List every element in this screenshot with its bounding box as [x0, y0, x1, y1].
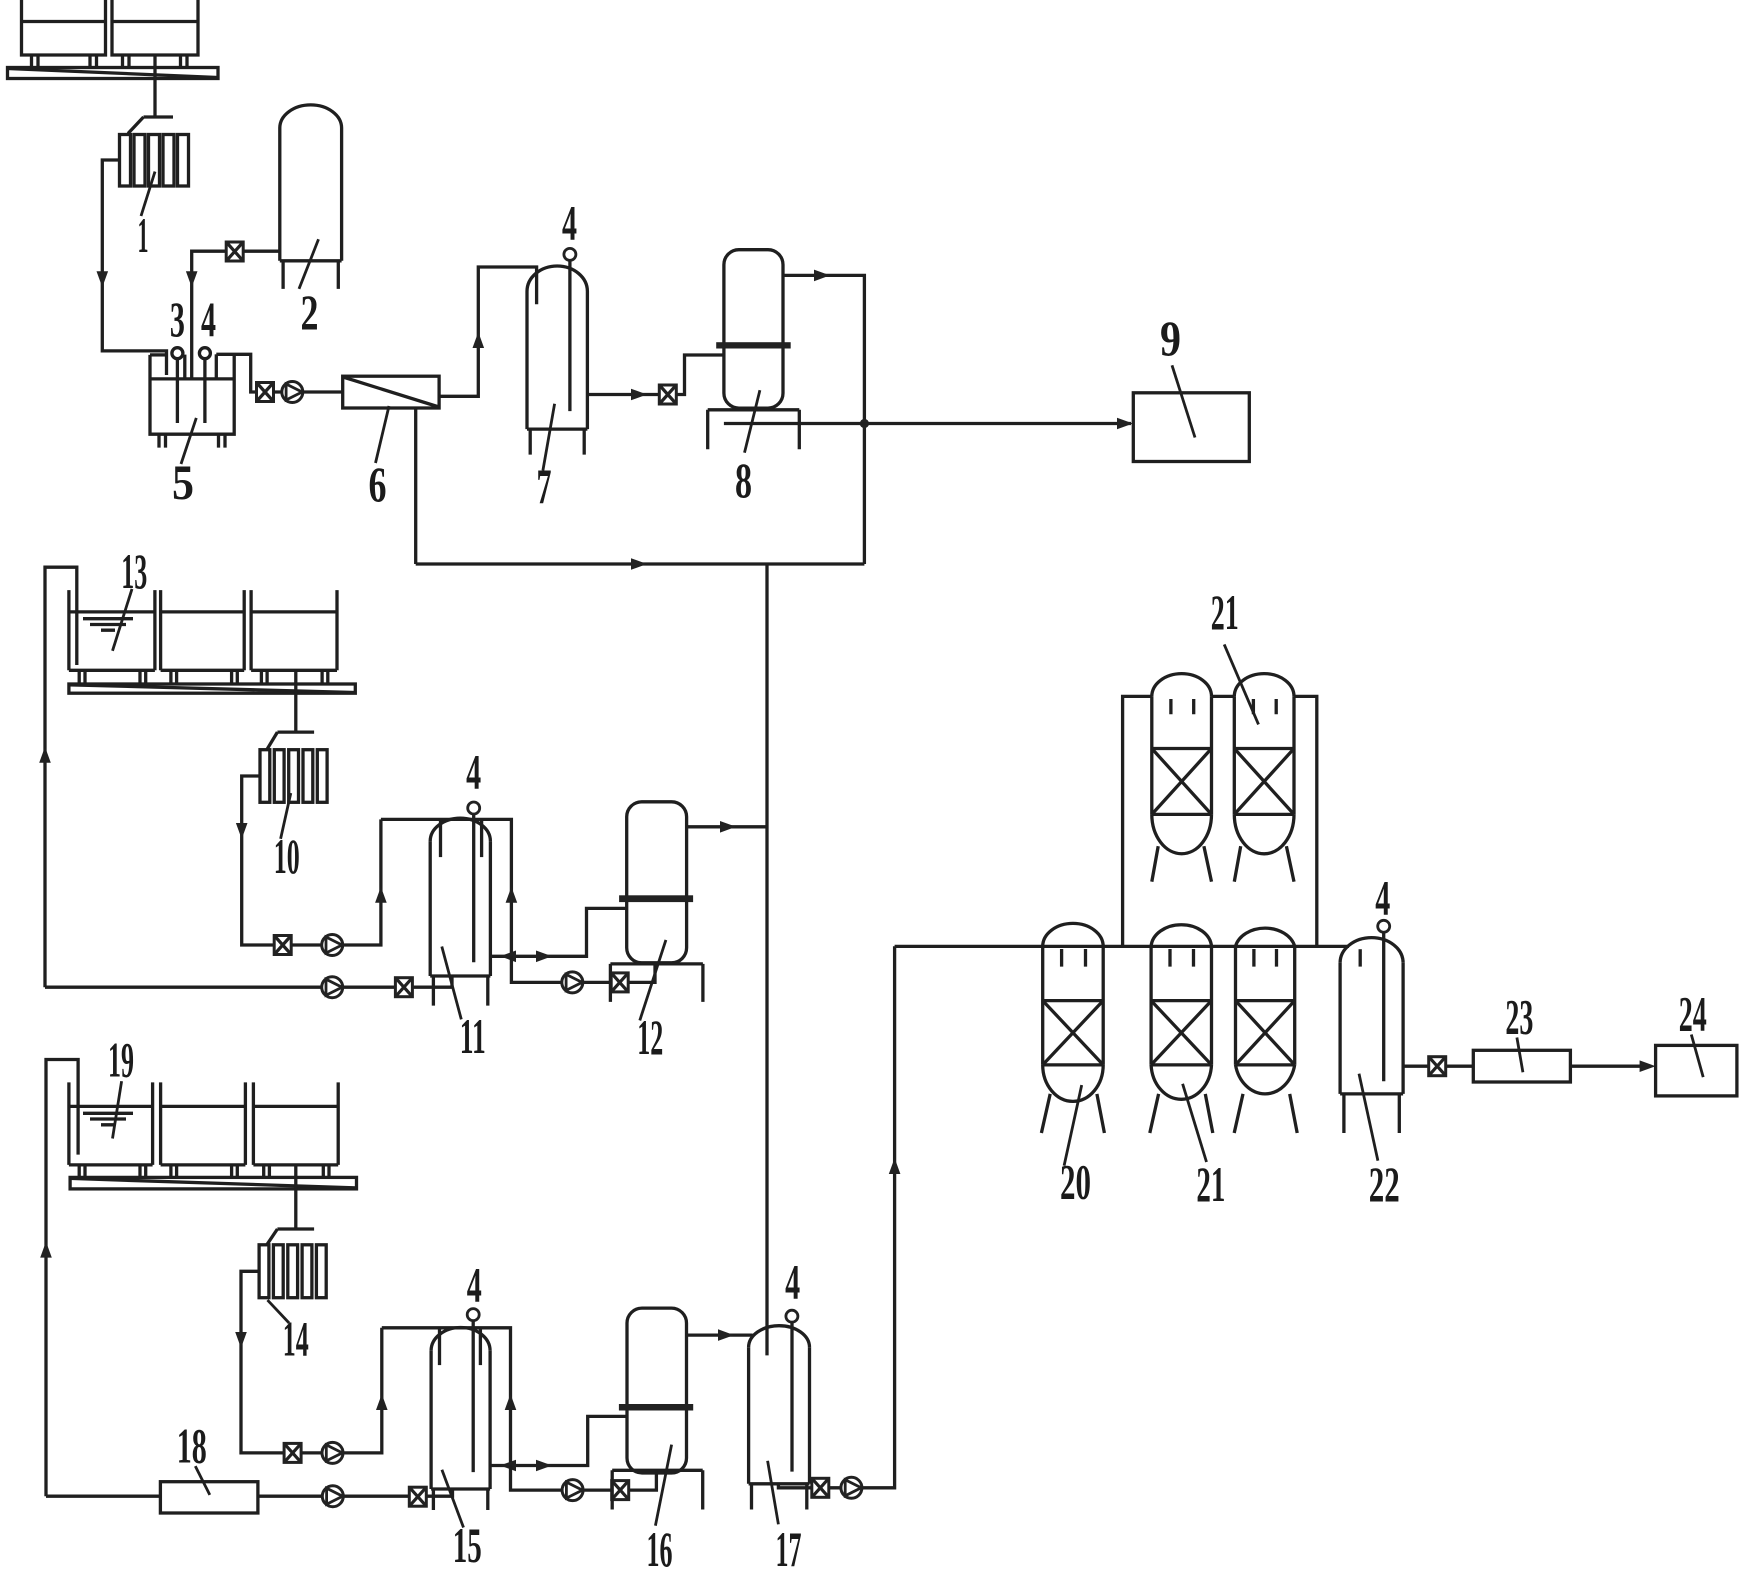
- svg-text:20: 20: [1060, 1154, 1091, 1210]
- svg-text:19: 19: [108, 1032, 134, 1088]
- gauge 4 on vessel 22: [1378, 920, 1390, 932]
- svg-text:16: 16: [647, 1521, 673, 1576]
- wire: vessel 15 outlet to vessel 16: [490, 1416, 627, 1465]
- svg-text:22: 22: [1369, 1156, 1400, 1212]
- column 21 (upper left): [1152, 674, 1212, 882]
- wire: vessel 11 outlet to vessel 12: [490, 908, 626, 956]
- filter 10 (bar stack): [260, 750, 327, 803]
- stand of vessel 12: [610, 964, 703, 1002]
- valve on bottom return: [409, 1487, 426, 1506]
- wire: long drop line to vessel 17: [765, 564, 768, 1355]
- stand of vessel 16: [612, 1470, 703, 1509]
- arrow down on feed line: [186, 271, 198, 287]
- arrow up on riser to columns: [889, 1158, 901, 1174]
- tank battery 13: [69, 590, 337, 684]
- platform under tank 19: [70, 1177, 356, 1189]
- pump on vessel15 recirculation: [562, 1480, 583, 1501]
- valve after vessel 22: [1429, 1057, 1446, 1076]
- wire: vessel 7 to vessel 8: [587, 355, 724, 395]
- label 6: [376, 406, 390, 463]
- wire: tank 19 downpipe to filter 14: [267, 1165, 314, 1245]
- label 16: [655, 1445, 671, 1526]
- svg-text:17: 17: [776, 1521, 802, 1576]
- arrow left at vessel 11 outlet: [500, 951, 516, 963]
- svg-text:14: 14: [283, 1311, 309, 1367]
- flange band on vessel 8: [716, 342, 791, 348]
- column 20 (lower left): [1041, 923, 1104, 1133]
- wire: unit 6 permeate to vessel 7: [439, 267, 536, 396]
- vessel 15 (dome tank): [431, 1327, 490, 1510]
- label 1: [141, 172, 155, 216]
- svg-text:4: 4: [467, 1256, 482, 1312]
- water level marks in tank 19: [83, 1113, 133, 1125]
- column 21 (upper right): [1234, 674, 1294, 882]
- arrow right on vessel 16 outlet: [718, 1329, 734, 1341]
- arrow right on vessel 12 outlet: [720, 821, 736, 833]
- gauge 4 on vessel 17: [786, 1310, 798, 1322]
- wire: filter 10 down to pump loop: [242, 776, 381, 945]
- svg-text:2: 2: [301, 284, 319, 340]
- arrow up on tank19 return: [40, 1242, 52, 1258]
- svg-text:21: 21: [1196, 1156, 1225, 1212]
- tank battery 19: [69, 1082, 338, 1177]
- gauge 4 on vessel 15: [467, 1309, 479, 1321]
- label 21 (lower): [1183, 1084, 1207, 1162]
- label 12: [640, 940, 666, 1021]
- svg-text:12: 12: [637, 1009, 663, 1065]
- svg-text:13: 13: [121, 543, 147, 599]
- label 13: [113, 589, 133, 651]
- wire: vessel 2 to tank 5 feed: [192, 251, 280, 379]
- label 24: [1691, 1035, 1703, 1078]
- unit 18 (exchanger box): [160, 1482, 258, 1513]
- svg-text:4: 4: [785, 1254, 800, 1310]
- gauge 4 on vessel 11: [468, 802, 480, 814]
- wire: vessel 11 recirculation bottom: [511, 956, 655, 982]
- arrow right to vessel 12: [536, 951, 552, 963]
- arrow up to vessel 11: [375, 887, 387, 903]
- label 20: [1064, 1085, 1082, 1166]
- arrow into unit 9: [1117, 418, 1133, 430]
- valve on vessel2 line: [226, 242, 243, 261]
- wire: vessel 12 outlet to drop line: [687, 825, 767, 828]
- arrow down from filter 10: [236, 823, 248, 839]
- platform under tank 13: [69, 684, 355, 693]
- column 21 (lower middle): [1150, 925, 1213, 1133]
- svg-text:18: 18: [177, 1418, 207, 1474]
- arrow up on vessel 15 right riser: [505, 1394, 517, 1410]
- gauge 4 on vessel 7: [564, 248, 576, 260]
- svg-text:5: 5: [172, 454, 194, 510]
- label 23: [1517, 1038, 1523, 1073]
- valve on vessel15 recirculation: [612, 1481, 629, 1500]
- unit 24 (use point box): [1656, 1045, 1737, 1096]
- svg-text:3: 3: [170, 291, 185, 347]
- stand of vessel 8: [708, 410, 800, 449]
- label 9: [1172, 365, 1195, 437]
- flange band on vessel 12: [619, 895, 693, 902]
- flange band on vessel 16: [619, 1404, 693, 1411]
- wire: middle return line y987: [45, 976, 452, 987]
- vessel 12 (capsule on stand): [627, 802, 687, 963]
- svg-text:1: 1: [138, 207, 149, 263]
- unit 23 (UV box): [1473, 1050, 1570, 1082]
- wire: return pipe into tank 13: [45, 567, 77, 987]
- svg-text:9: 9: [1160, 310, 1181, 366]
- vessel 2 (dome tank): [280, 105, 342, 289]
- label 19: [113, 1081, 122, 1138]
- svg-text:4: 4: [1375, 870, 1390, 926]
- valve on filter14 loop: [284, 1443, 301, 1462]
- filter 1 (bar stack): [120, 135, 189, 187]
- pump on bottom return: [322, 1486, 343, 1507]
- svg-text:10: 10: [274, 828, 300, 884]
- wire: vessel 15 recirculation bottom: [511, 1466, 657, 1491]
- svg-text:6: 6: [369, 456, 387, 512]
- pump on filter10 loop: [322, 935, 343, 956]
- svg-text:7: 7: [537, 458, 552, 514]
- pump on filter14 loop: [322, 1442, 343, 1463]
- vessel 17 (dome tank): [749, 1326, 810, 1510]
- arrow down on filter1 line: [97, 271, 109, 287]
- feed tank battery (top, cut off): [22, 0, 199, 68]
- vessel 16 (capsule on stand): [627, 1308, 687, 1473]
- svg-text:4: 4: [562, 195, 577, 251]
- wire: product line to unit 9: [724, 422, 1131, 425]
- svg-text:4: 4: [201, 291, 216, 347]
- valve on recirculation: [611, 973, 628, 992]
- valve on filter10 loop: [274, 936, 291, 955]
- wire: vessel 17 drain to riser: [778, 946, 894, 1488]
- arrow right on vessel 8 outlet: [814, 270, 830, 282]
- wire: downpipe from feed tanks to filter 1: [128, 55, 173, 134]
- valve on middle return: [395, 978, 412, 997]
- wire: unit 6 concentrate drain: [414, 408, 417, 564]
- tank 5 (dosing tank): [150, 354, 257, 447]
- wire: vessel 16 outlet to vessel 17: [687, 1333, 753, 1336]
- svg-text:21: 21: [1211, 584, 1239, 640]
- svg-text:15: 15: [453, 1517, 482, 1573]
- arrow up on tank13 return: [39, 747, 51, 763]
- valve after tank 5: [257, 383, 274, 402]
- label 21 (upper): [1224, 644, 1258, 724]
- label 8: [745, 390, 760, 453]
- label 7: [543, 404, 555, 471]
- label 15: [442, 1470, 464, 1528]
- wire: top feed line over vessel 11: [381, 819, 512, 956]
- svg-text:23: 23: [1505, 989, 1533, 1045]
- unit 9 (product box): [1133, 393, 1249, 462]
- label 2: [299, 239, 319, 289]
- pump on middle return: [322, 977, 343, 998]
- arrow into unit 24: [1640, 1060, 1656, 1072]
- arrow right to vessel 16: [536, 1460, 552, 1472]
- probe 4 on tank 5: [199, 348, 210, 423]
- pump on recirculation: [562, 972, 583, 993]
- wire: pump to unit 6: [274, 390, 343, 393]
- svg-text:8: 8: [735, 452, 752, 508]
- wire: return pipe into tank 19: [46, 1060, 78, 1497]
- label 14: [268, 1300, 290, 1323]
- arrow up to vessel 15: [376, 1394, 388, 1410]
- svg-text:11: 11: [460, 1008, 486, 1064]
- wire: bottom return line y1496: [46, 1489, 453, 1496]
- filter 14 (bar stack): [259, 1245, 326, 1298]
- probe 3 on tank 5: [172, 348, 183, 423]
- arrow left at vessel 15 outlet: [500, 1460, 516, 1472]
- vessel 7 (dome tank): [527, 266, 587, 455]
- valve before vessel 8: [659, 385, 676, 404]
- label 10: [281, 793, 291, 839]
- wire: filter 14 down to pump loop: [241, 1271, 382, 1453]
- label 22: [1359, 1074, 1378, 1161]
- unit 6 (membrane module): [343, 376, 439, 408]
- wire: tank 13 downpipe to filter 10: [267, 670, 314, 749]
- arrow right into valve: [631, 389, 647, 401]
- label 17: [768, 1461, 779, 1525]
- junction node: [860, 419, 869, 428]
- label 5: [181, 418, 196, 464]
- wire: concentrate header y564: [416, 562, 865, 565]
- arrow right on header: [631, 558, 647, 570]
- valve on vessel 17 drain: [812, 1478, 829, 1497]
- label 11: [442, 947, 462, 1020]
- wire: unit 23 to unit 24: [1570, 1065, 1651, 1068]
- column 21 (lower right): [1234, 928, 1297, 1133]
- platform under feed tanks: [8, 68, 219, 79]
- vessel 11 (dome tank): [430, 818, 490, 1005]
- arrow down from filter 14: [235, 1332, 247, 1348]
- wire: vessel 8 top outlet: [783, 275, 864, 564]
- svg-text:4: 4: [466, 744, 481, 800]
- wire: frame risers of upper columns: [1123, 696, 1317, 946]
- vessel 22 (dome tank): [1340, 938, 1403, 1133]
- water level marks in tank 13: [83, 619, 133, 631]
- svg-text:24: 24: [1679, 986, 1707, 1042]
- arrow up on vessel 11 right riser: [506, 887, 518, 903]
- wire: vessel 22 outlet to unit 23: [1403, 1065, 1473, 1068]
- pump after tank 5: [282, 382, 303, 403]
- vessel 8 (capsule on stand): [724, 250, 783, 408]
- label 18: [195, 1466, 210, 1495]
- wire: filter 1 to tank 5: [102, 160, 166, 375]
- wire: manifold to columns: [895, 945, 1349, 948]
- pump on vessel 17 drain: [841, 1477, 862, 1498]
- arrow up to vessel 7: [473, 332, 485, 348]
- wire: top feed line over vessel 15: [382, 1328, 511, 1466]
